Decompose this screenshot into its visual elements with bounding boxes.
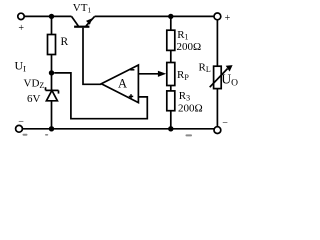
wire top rail right (emitter to output terminal) <box>95 15 214 17</box>
resistor R <box>48 35 56 55</box>
wire R bottom lead to reference node <box>51 55 53 73</box>
output terminal + (top-right) <box>214 13 221 20</box>
node zener/bottom-rail junction dot <box>49 126 54 131</box>
wire zener anode lead to bottom rail <box>51 101 53 129</box>
svg-text:200Ω: 200Ω <box>177 41 202 53</box>
node R3/bottom-rail junction dot <box>168 126 173 131</box>
wire RP to R3 <box>170 86 172 91</box>
wire R1 top lead <box>170 16 172 30</box>
label plus input <box>129 94 133 98</box>
wire R1 to RP <box>170 50 172 62</box>
zener diode VDZ <box>46 87 59 101</box>
wire top rail left (terminal to collector) <box>24 15 71 17</box>
wire base lead down from VT1 <box>83 28 101 85</box>
resistor R1 <box>167 30 175 50</box>
wire op-amp plus input routing to reference node <box>54 73 147 119</box>
resistor R3 <box>167 91 175 111</box>
svg-text:−: − <box>222 118 228 129</box>
transistor VT1 <box>72 16 95 26</box>
wire op-amp minus input to RP wiper <box>138 73 159 75</box>
node junction dot above R <box>49 14 54 19</box>
wire right rail bottom (RL to output minus terminal) <box>216 89 218 127</box>
wire zener cathode lead <box>51 73 53 91</box>
svg-text:200Ω: 200Ω <box>178 102 203 114</box>
wire R3 bottom lead <box>170 111 172 129</box>
svg-text:+: + <box>225 13 231 24</box>
output terminal minus (bottom-right) <box>214 127 221 134</box>
node reference (R / zener / op-amp +) junction dot <box>49 70 54 75</box>
svg-text:−: − <box>18 117 24 128</box>
potentiometer RP <box>167 63 175 86</box>
node junction dot above R1 <box>168 14 173 19</box>
svg-text:+: + <box>18 23 24 34</box>
wire bottom rail <box>22 128 214 130</box>
op-amp A <box>101 65 138 103</box>
input terminal + (top-left) <box>18 13 24 19</box>
cropped caption text artifacts along bottom edge <box>23 134 193 137</box>
wire right rail top (output terminal to RL) <box>216 20 218 66</box>
RP wiper arrowhead <box>158 71 166 77</box>
label minus input <box>130 69 134 71</box>
load rheostat RL <box>210 65 233 89</box>
wire R top lead <box>51 16 53 34</box>
input terminal minus (bottom-left) <box>16 125 23 132</box>
svg-text:6V: 6V <box>27 93 41 105</box>
svg-text:R: R <box>61 36 69 48</box>
svg-text:A: A <box>118 76 127 90</box>
